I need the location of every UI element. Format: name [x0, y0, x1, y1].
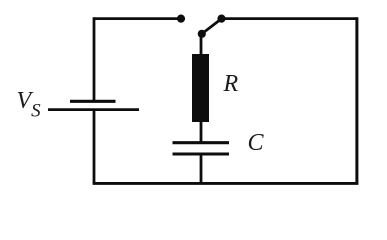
svg-text:VS: VS — [17, 88, 42, 122]
wire: top rail right segment (switch to right corner) — [222, 17, 358, 20]
wire: left rail upper (top rail down to battery) — [93, 17, 96, 100]
wire: left rail lower (battery down to bottom rail) — [93, 111, 96, 184]
wire: switch pivot down to resistor R — [200, 34, 203, 55]
node: switch right contact dot — [217, 15, 225, 23]
wire: resistor R to capacitor C — [200, 121, 203, 142]
svg-text:R: R — [223, 71, 239, 97]
capacitor C bottom plate — [173, 152, 230, 155]
battery Vs short plate — [70, 100, 116, 103]
node: switch left contact dot — [177, 15, 185, 23]
wire: capacitor C down to bottom rail — [200, 155, 203, 183]
battery Vs long plate — [48, 108, 139, 111]
switch arm (blade from pivot to right contact) — [202, 20, 221, 34]
svg-text:C: C — [248, 130, 265, 156]
wire: bottom rail — [93, 182, 359, 185]
wire: top rail left segment (battery to switch contact) — [94, 17, 178, 20]
capacitor C top plate — [173, 141, 230, 144]
resistor R (solid bar) — [192, 54, 209, 122]
wire: right rail — [355, 17, 358, 183]
node: switch pivot dot — [198, 30, 206, 38]
